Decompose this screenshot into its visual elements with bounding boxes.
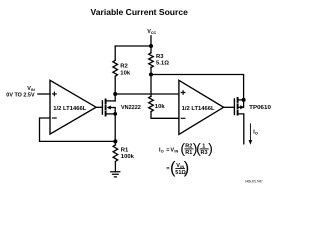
svg-text:): ) [208, 141, 213, 157]
wire top rail [115, 45, 151, 47]
op-amp U1 1/2 LT1466L [50, 80, 96, 134]
svg-text:10k: 10k [155, 104, 166, 110]
wire U1 - input and feedback loop [40, 118, 116, 141]
node R3 bottom junction dot [149, 73, 153, 77]
wire R2 top lead [114, 46, 116, 60]
svg-text:100k: 100k [121, 154, 135, 160]
wire U2 output to Q2 gate [224, 106, 234, 108]
transistor Q2 TP0610 [233, 99, 235, 115]
svg-text:1466L/67L TA07: 1466L/67L TA07 [245, 180, 263, 184]
wire Q1 source down to feedback node [114, 114, 116, 141]
svg-text:R1: R1 [121, 147, 129, 153]
node drain junction dot [113, 92, 117, 96]
equation line 2 [166, 163, 186, 176]
resistor R3 [149, 53, 154, 68]
resistor 10k [149, 96, 154, 111]
wire U1 output to Q1 gate [96, 106, 102, 108]
ground [111, 172, 120, 177]
svg-text:O: O [255, 131, 258, 135]
svg-text:R3: R3 [156, 54, 164, 60]
node feedback junction dot [113, 139, 117, 143]
svg-text:Variable Current Source: Variable Current Source [91, 7, 188, 17]
svg-text:(: ( [196, 141, 201, 157]
svg-text:TP0610: TP0610 [249, 105, 271, 111]
wire 10k bottom to op-amp U2 - input [151, 113, 179, 119]
svg-text:R2: R2 [120, 64, 128, 70]
svg-text:1/2 LT1466L: 1/2 LT1466L [182, 106, 216, 112]
svg-text:(: ( [170, 159, 176, 177]
node IO annotation arrow [249, 124, 251, 141]
node junction dot at VCC [149, 44, 153, 48]
wire VCC stem [150, 36, 152, 46]
svg-text:O: O [161, 149, 164, 153]
wire R1 bottom lead [114, 162, 116, 171]
wire VIN to op-amp U1 + input [38, 93, 50, 95]
node VIN label [6, 86, 35, 98]
svg-text:R3: R3 [201, 150, 208, 156]
wire R2 bottom to drain [114, 76, 116, 101]
node VCC label [147, 29, 156, 35]
transistor Q1 VN2222 [101, 101, 103, 114]
equation line 1 [159, 144, 208, 156]
wire R3 node to TP0610 source [151, 75, 244, 100]
svg-text:CC: CC [151, 31, 157, 35]
wire R1 top lead [114, 141, 116, 145]
wire R3 top lead [150, 46, 152, 53]
wire drain node to op-amp U2 + input [115, 93, 179, 95]
wire Q2 drain output [238, 114, 244, 144]
svg-text:=: = [166, 147, 169, 153]
op-amp U2 1/2 LT1466L [179, 80, 224, 134]
svg-text:): ) [184, 159, 189, 177]
svg-text:IN: IN [174, 149, 178, 153]
wire R3 bottom lead [150, 67, 152, 74]
svg-text:10k: 10k [120, 71, 131, 77]
svg-text:R1: R1 [185, 150, 192, 156]
resistor R1 [113, 145, 118, 161]
svg-text:5.1Ω: 5.1Ω [156, 60, 169, 66]
resistor R2 [113, 60, 118, 76]
wire 10k top lead [150, 75, 152, 97]
svg-text:(: ( [180, 141, 185, 157]
svg-text:1/2 LT1466L: 1/2 LT1466L [53, 106, 87, 112]
svg-text:VN2222: VN2222 [121, 105, 141, 111]
svg-text:0V TO 2.5V: 0V TO 2.5V [6, 92, 35, 98]
